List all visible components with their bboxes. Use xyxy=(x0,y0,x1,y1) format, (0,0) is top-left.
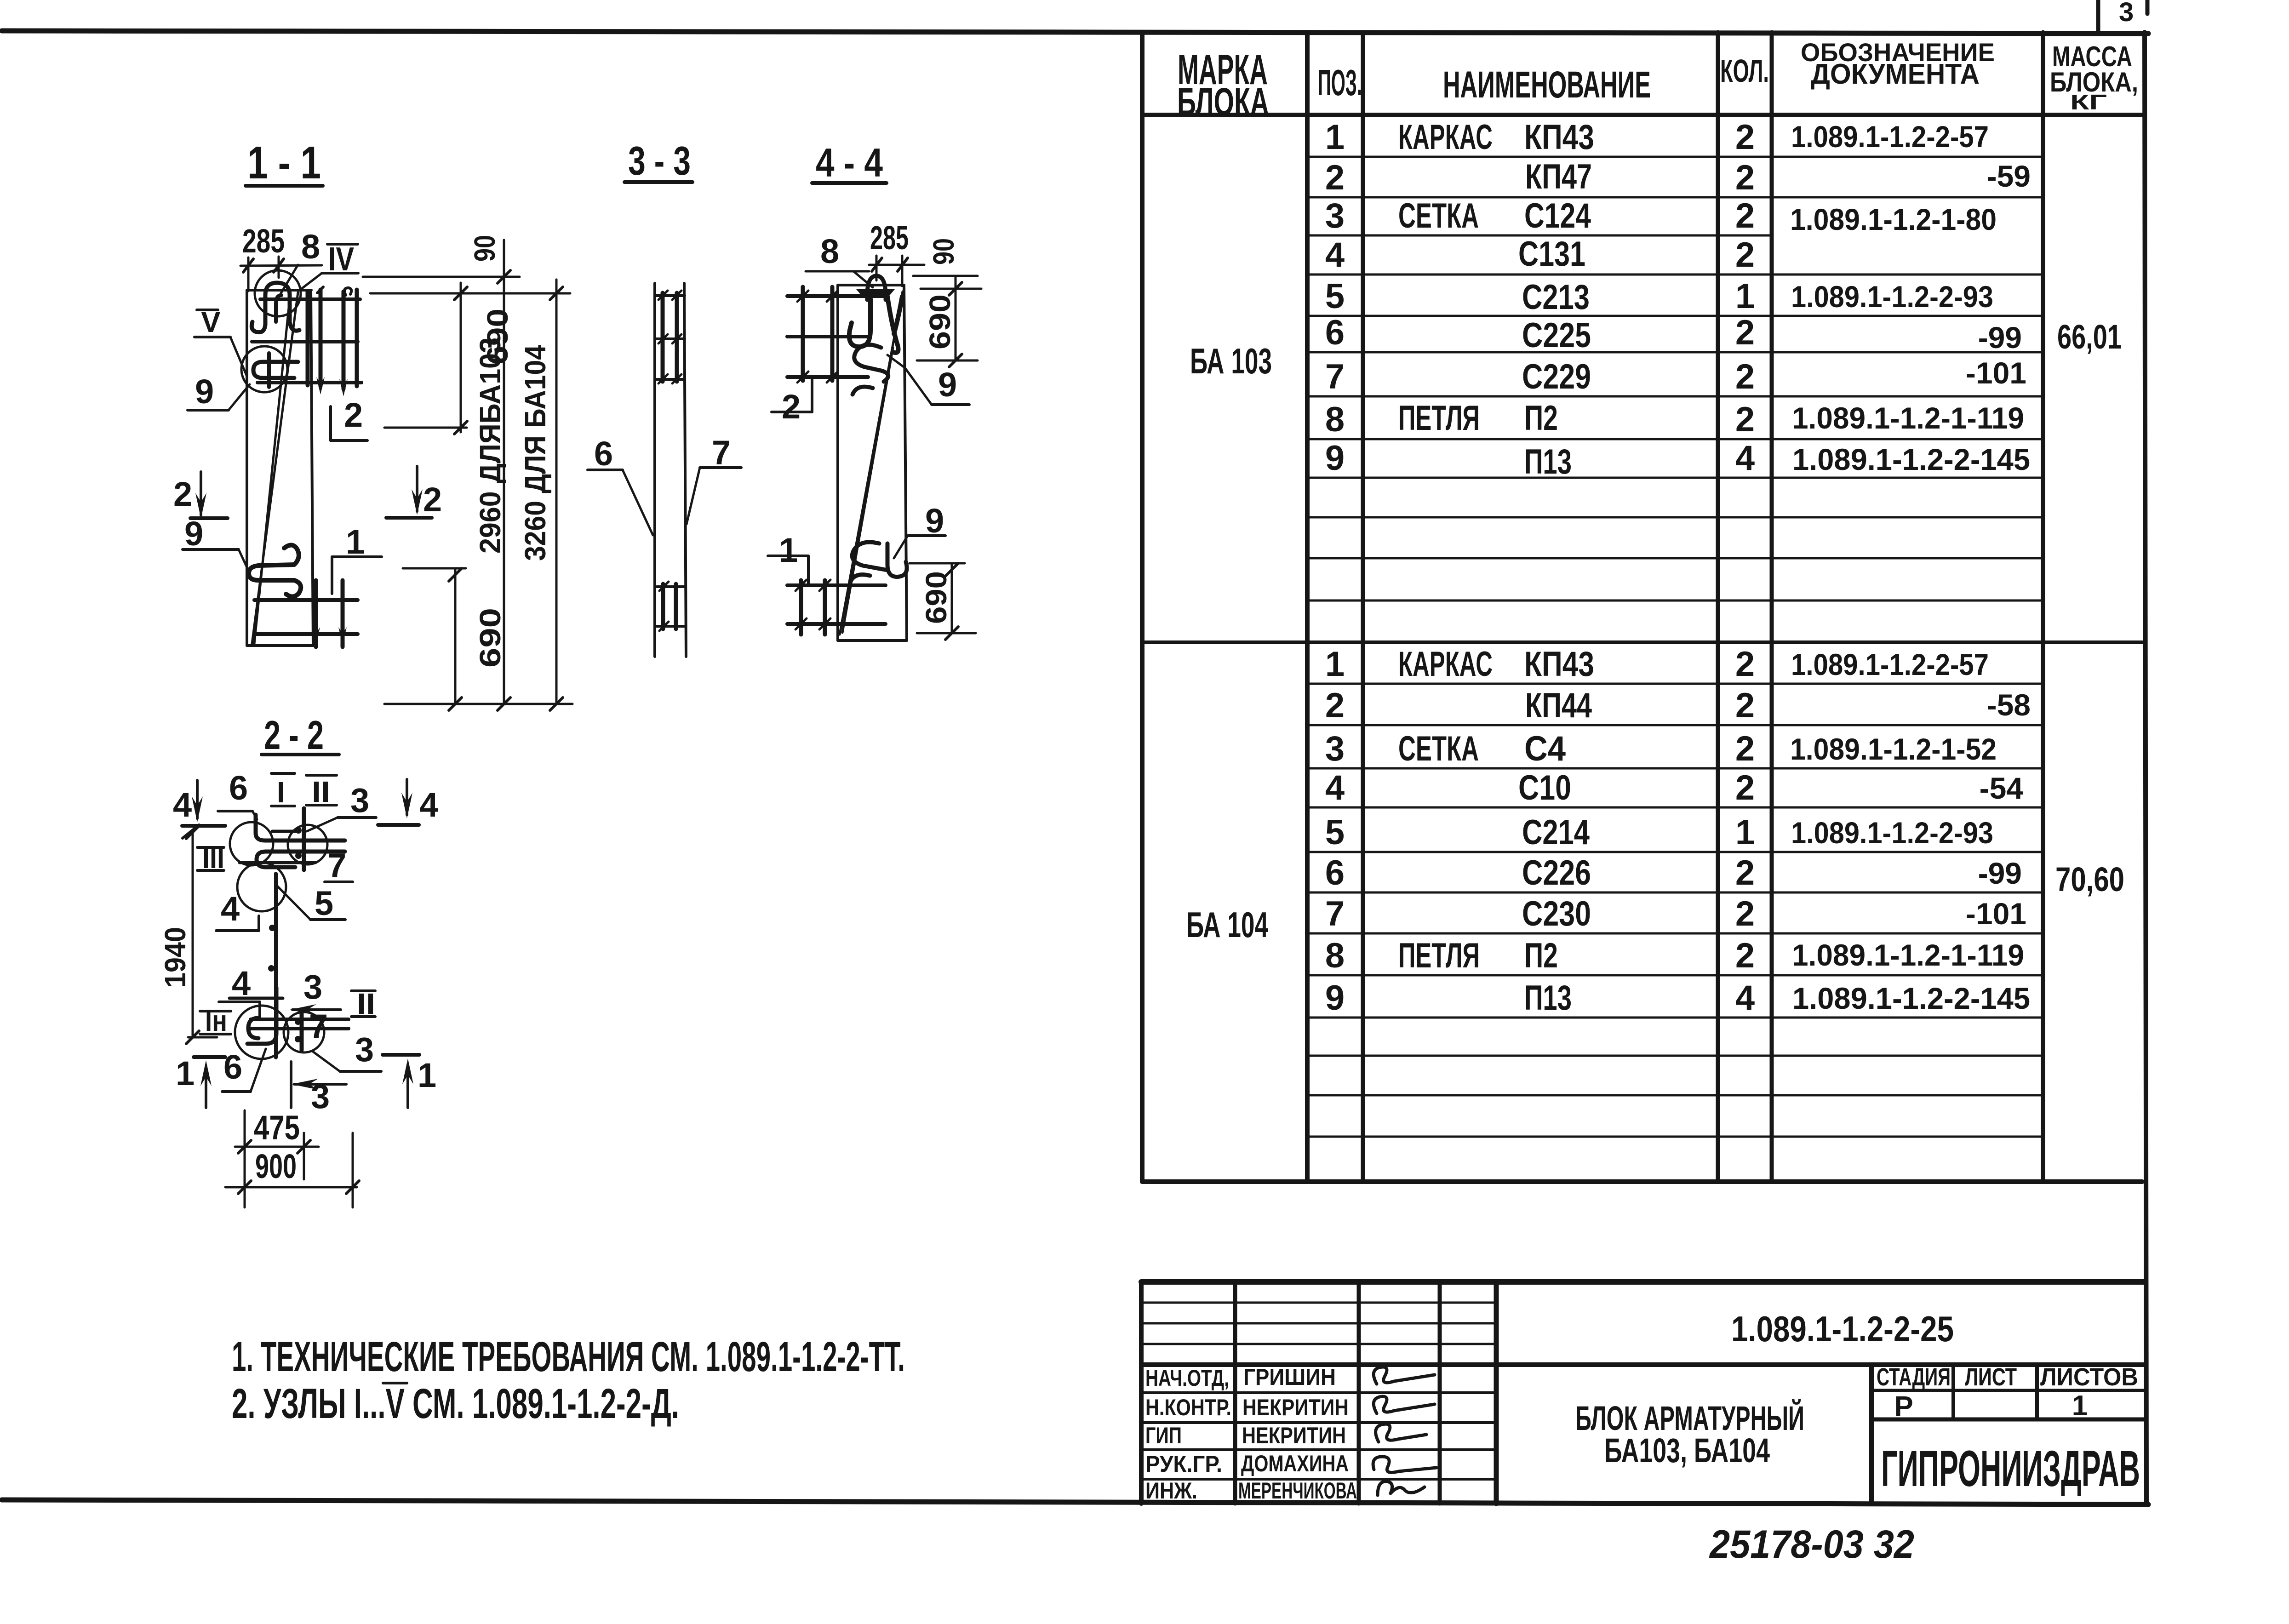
node circle II bottom xyxy=(284,1012,324,1052)
bottom rebar mesh verticals xyxy=(795,580,830,635)
svg-text:66,01: 66,01 xyxy=(2057,318,2122,356)
svg-text:90: 90 xyxy=(468,235,501,262)
signature squiggle 1 xyxy=(1373,1367,1435,1384)
svg-text:4: 4 xyxy=(221,890,240,928)
BA103 row line 3/4 (stops before doc column) xyxy=(1307,234,1772,237)
bottom long bar 1 xyxy=(251,1018,349,1021)
svg-text:РУК.ГР.: РУК.ГР. xyxy=(1145,1451,1222,1477)
svg-text:5: 5 xyxy=(315,884,333,922)
header OBOZNACHENIE DOKUMENTA xyxy=(1801,38,1995,90)
svg-text:БА103, БА104: БА103, БА104 xyxy=(1604,1431,1770,1470)
svg-text:II: II xyxy=(312,775,330,808)
svg-text:СЕТКА: СЕТКА xyxy=(1398,729,1479,768)
svg-text:2: 2 xyxy=(1735,118,1755,157)
bottom long bar 2 xyxy=(251,1027,349,1030)
svg-text:4: 4 xyxy=(1735,439,1755,478)
node label III xyxy=(197,841,224,875)
svg-text:8: 8 xyxy=(301,228,320,266)
svg-text:П2: П2 xyxy=(1524,936,1558,975)
node circle I xyxy=(230,822,273,865)
bottom rebar mesh horizontals xyxy=(787,585,886,624)
svg-text:НЕКРИТИН: НЕКРИТИН xyxy=(1242,1423,1346,1448)
dim 690 top line xyxy=(384,283,467,434)
svg-text:2: 2 xyxy=(1735,686,1755,725)
bottom tie group xyxy=(657,582,685,631)
BA103 row line 4/5 xyxy=(1307,274,2043,276)
column line Oboznachenie/Massa xyxy=(2041,32,2045,1182)
svg-text:475: 475 xyxy=(254,1109,300,1147)
rebar end blob under loop xyxy=(856,289,895,298)
svg-text:1: 1 xyxy=(346,523,365,561)
svg-text:285: 285 xyxy=(242,223,285,260)
svg-text:ЛИСТОВ: ЛИСТОВ xyxy=(2040,1363,2138,1391)
dim 900 xyxy=(225,1133,359,1207)
diagonal brace A xyxy=(840,292,903,635)
svg-text:2: 2 xyxy=(1735,894,1755,933)
node label I xyxy=(271,773,295,809)
label 7 xyxy=(687,434,741,524)
BA104 row 5 xyxy=(1325,813,1993,852)
label 9 lower xyxy=(183,515,247,568)
diagonal brace A xyxy=(252,292,298,644)
svg-text:1.089.1-1.2-1-80: 1.089.1-1.2-1-80 xyxy=(1790,202,1997,236)
U-cap bottom xyxy=(248,1018,258,1038)
svg-text:1.089.1-1.2-2-57: 1.089.1-1.2-2-57 xyxy=(1791,120,1989,154)
svg-text:6: 6 xyxy=(1325,853,1345,892)
svg-text:-101: -101 xyxy=(1966,897,2026,931)
svg-text:3260 ДЛЯ БА104: 3260 ДЛЯ БА104 xyxy=(519,345,552,561)
svg-text:1: 1 xyxy=(1735,277,1755,316)
stadia header bottom xyxy=(1871,1389,2145,1392)
svg-text:КАРКАС: КАРКАС xyxy=(1398,118,1493,157)
section cut marker 1 bottom-right xyxy=(383,1055,436,1108)
section cut marker 3 bottom-center xyxy=(291,1062,346,1115)
lifting loop P2 top xyxy=(252,283,299,332)
names xyxy=(1238,1364,1357,1504)
svg-text:ЛИСТ: ЛИСТ xyxy=(1965,1363,2017,1391)
top hooks xyxy=(849,297,902,395)
label 3 bottom right xyxy=(312,1030,381,1071)
svg-text:90: 90 xyxy=(927,238,960,265)
svg-text:1.089.1-1.2-2-93: 1.089.1-1.2-2-93 xyxy=(1791,280,1993,314)
svg-text:КП47: КП47 xyxy=(1525,157,1592,196)
svg-text:С230: С230 xyxy=(1522,894,1591,933)
SECTION_2_2 xyxy=(159,712,438,1207)
divider signatures/dates xyxy=(1438,1282,1442,1504)
svg-text:6: 6 xyxy=(594,435,613,473)
label 9 top xyxy=(887,355,969,405)
divider labels/names xyxy=(1233,1282,1237,1504)
node circle In xyxy=(235,1006,288,1059)
column line Poz/Naimenovanie xyxy=(1361,32,1365,1182)
BA103 row line 2/3 xyxy=(1307,196,2043,199)
node label II xyxy=(306,775,337,808)
svg-text:2: 2 xyxy=(1735,196,1755,235)
divider stadia/list xyxy=(1951,1365,1955,1419)
svg-text:1: 1 xyxy=(1325,645,1345,684)
bar dots top xyxy=(295,827,302,859)
header MASSA BLOKA KG xyxy=(2050,41,2138,114)
BA104 row 2 xyxy=(1325,686,2031,725)
panel edge left xyxy=(653,283,656,657)
svg-text:70,60: 70,60 xyxy=(2055,860,2124,898)
section cut marker 4 top-left xyxy=(173,780,225,838)
NOTES xyxy=(232,1333,905,1427)
table left border xyxy=(1140,32,1144,1182)
BA104 blank row line xyxy=(1307,1094,2043,1097)
svg-text:1.089.1-1.2-1-119: 1.089.1-1.2-1-119 xyxy=(1792,938,2024,972)
label 9 upper xyxy=(188,372,250,411)
svg-text:КАРКАС: КАРКАС xyxy=(1398,645,1493,684)
column line Marka/Poz xyxy=(1305,32,1310,1182)
svg-text:Н.КОНТР.: Н.КОНТР. xyxy=(1145,1395,1231,1420)
svg-text:9: 9 xyxy=(195,372,214,411)
svg-text:2. УЗЛЫ I...V СМ. 1.089.1-1.2-: 2. УЗЛЫ I...V СМ. 1.089.1-1.2-2-Д. xyxy=(232,1380,679,1427)
svg-text:2960 ДЛЯБА103: 2960 ДЛЯБА103 xyxy=(474,337,507,554)
dim extension second leader xyxy=(921,288,981,290)
svg-text:-58: -58 xyxy=(1987,688,2031,722)
BA104 row 1 xyxy=(1325,645,1989,684)
label 8 xyxy=(806,232,873,287)
right frame border xyxy=(2145,32,2146,1504)
block divider BA103/BA104 xyxy=(1142,640,2142,644)
divider dates/title xyxy=(1494,1282,1499,1504)
svg-text:МЕРЕНЧИКОВА: МЕРЕНЧИКОВА xyxy=(1238,1478,1357,1504)
dim line 2960 dlya BA103 xyxy=(498,240,510,710)
dim extension top leader xyxy=(913,275,978,277)
svg-text:1: 1 xyxy=(2072,1390,2088,1422)
svg-text:С214: С214 xyxy=(1522,813,1590,852)
label 7 xyxy=(325,846,353,885)
svg-text:ДОКУМЕНТА: ДОКУМЕНТА xyxy=(1811,58,1980,90)
svg-text:690: 690 xyxy=(923,294,956,349)
stadia row bottom xyxy=(1871,1418,2145,1422)
svg-text:С124: С124 xyxy=(1524,196,1591,235)
svg-text:7: 7 xyxy=(1325,894,1345,933)
svg-text:5: 5 xyxy=(1325,277,1345,316)
svg-text:2: 2 xyxy=(1735,400,1755,439)
svg-text:2: 2 xyxy=(1735,729,1755,768)
svg-text:С225: С225 xyxy=(1522,316,1591,355)
BA104 row 3 xyxy=(1325,729,1997,768)
svg-text:2: 2 xyxy=(1735,853,1755,892)
node label II bottom xyxy=(351,987,375,1020)
bottom rebar mesh verticals xyxy=(312,580,347,647)
svg-text:ГРИШИН: ГРИШИН xyxy=(1243,1364,1336,1390)
left blank rows xyxy=(1141,1303,1496,1344)
svg-text:СТАДИЯ: СТАДИЯ xyxy=(1877,1363,1951,1391)
diagonal brace B xyxy=(842,348,893,633)
svg-text:9: 9 xyxy=(938,366,957,404)
BA104 blank row line xyxy=(1307,1055,2043,1057)
BA103 row 8 xyxy=(1325,399,2024,439)
BA104 row 7 xyxy=(1325,894,2026,933)
BA103 blank row line xyxy=(1307,557,2043,560)
svg-text:2 - 2: 2 - 2 xyxy=(264,712,324,758)
bottom bar top segment xyxy=(229,997,283,1000)
label 4 mid with bracket xyxy=(216,890,259,931)
BA104 row line 2/3 xyxy=(1307,724,2043,726)
label 1 with bracket xyxy=(768,531,808,585)
signature squiggle 2 xyxy=(1373,1396,1435,1413)
bar dots bottom xyxy=(295,1018,301,1042)
svg-text:2: 2 xyxy=(173,475,192,513)
svg-text:7: 7 xyxy=(1325,357,1345,396)
column line Naimenovanie/Kol xyxy=(1716,32,1720,1182)
BA103 row 7 xyxy=(1325,356,2026,396)
label 2 with bracket xyxy=(772,379,812,426)
title text xyxy=(1575,1399,1804,1470)
BA104 row line 5/6 xyxy=(1307,851,2043,853)
top frame line xyxy=(2,31,2148,34)
dim extension top leader xyxy=(363,276,520,278)
section cut marker 2 left xyxy=(173,472,228,519)
svg-text:4: 4 xyxy=(1325,768,1345,807)
svg-text:ИНЖ.: ИНЖ. xyxy=(1145,1478,1197,1504)
bottom hooks xyxy=(851,542,907,581)
bottom rebar mesh horizontals xyxy=(254,600,358,634)
svg-text:285: 285 xyxy=(870,220,909,257)
BA103 row 6 xyxy=(1325,313,2022,355)
SECTION_4_4 xyxy=(768,140,981,640)
svg-text:СЕТКА: СЕТКА xyxy=(1398,196,1479,235)
svg-text:2: 2 xyxy=(1735,645,1755,684)
BA103 row 4 xyxy=(1325,234,1755,274)
svg-text:4: 4 xyxy=(419,786,438,824)
dim bottom base leader xyxy=(384,703,572,705)
divider list/listov xyxy=(2035,1365,2039,1419)
BA104 row line 8/9 xyxy=(1307,974,2043,977)
stadia values xyxy=(1894,1390,2088,1423)
section cut marker 1 bottom-left xyxy=(176,1054,225,1108)
label 9 bottom xyxy=(894,502,945,558)
svg-text:25178-03 32: 25178-03 32 xyxy=(1709,1522,1914,1567)
left role labels xyxy=(1145,1365,1231,1504)
svg-text:С10: С10 xyxy=(1518,768,1571,807)
BA104 row line 9/10 xyxy=(1307,1017,2043,1019)
label 6 bottom xyxy=(222,1048,266,1092)
svg-text:1.089.1-1.2-2-145: 1.089.1-1.2-2-145 xyxy=(1792,442,2030,476)
column line Kol/Oboznachenie xyxy=(1770,32,1774,1182)
return bar pos5 xyxy=(257,852,345,867)
BA103 row line 5/6 xyxy=(1307,315,2043,317)
svg-text:I: I xyxy=(277,776,285,809)
svg-text:9: 9 xyxy=(184,515,203,553)
svg-text:6: 6 xyxy=(229,769,248,807)
signature squiggle 5 xyxy=(1378,1481,1425,1495)
stadia headers xyxy=(1877,1363,2138,1391)
svg-text:3: 3 xyxy=(2119,0,2134,27)
dim line 3260 dlya BA104 xyxy=(550,280,563,710)
svg-text:1: 1 xyxy=(176,1054,195,1092)
svg-text:7: 7 xyxy=(327,846,346,885)
svg-text:КП43: КП43 xyxy=(1524,645,1594,684)
node circle II xyxy=(288,825,327,864)
svg-text:КГ: КГ xyxy=(2070,90,2107,114)
svg-text:Р: Р xyxy=(1894,1391,1913,1423)
svg-text:3: 3 xyxy=(303,968,322,1006)
dim 690 bottom line xyxy=(403,568,466,710)
svg-text:С131: С131 xyxy=(1518,234,1585,274)
svg-text:1.089.1-1.2-2-57: 1.089.1-1.2-2-57 xyxy=(1791,647,1989,681)
label 5 xyxy=(277,884,345,922)
svg-text:1.089.1-1.2-2-93: 1.089.1-1.2-2-93 xyxy=(1791,816,1993,850)
svg-text:3: 3 xyxy=(350,781,369,819)
svg-text:3: 3 xyxy=(1325,196,1345,235)
label IV xyxy=(300,241,358,290)
diagonal brace B xyxy=(254,294,290,644)
BA104 row line 1/2 xyxy=(1307,683,2043,685)
top rebar mesh horizontals xyxy=(252,299,361,383)
BA104 row 4 xyxy=(1325,768,2023,807)
svg-text:2: 2 xyxy=(1735,936,1755,975)
label 2 with bracket xyxy=(331,396,367,440)
svg-text:ПЕТЛЯ: ПЕТЛЯ xyxy=(1398,399,1480,438)
label 3 mid with arrow xyxy=(290,968,341,1046)
svg-text:6: 6 xyxy=(1325,313,1345,352)
section label 2-2 xyxy=(262,712,339,758)
svg-text:9: 9 xyxy=(1325,978,1345,1018)
label 6 top xyxy=(218,769,257,819)
node circle III xyxy=(237,863,286,911)
svg-text:8: 8 xyxy=(820,232,839,270)
svg-text:4: 4 xyxy=(1735,978,1755,1018)
signature squiggle 4 xyxy=(1373,1457,1436,1472)
TITLE_BLOCK xyxy=(1141,1282,2145,1567)
svg-text:-101: -101 xyxy=(1966,356,2026,390)
top rebar mesh verticals xyxy=(797,287,838,383)
bottom frame line xyxy=(2,1500,2148,1504)
divider names/signatures xyxy=(1357,1282,1361,1504)
bent bar bottom xyxy=(247,988,276,1044)
sheet number tick left xyxy=(2096,0,2100,32)
bottom hook bar with curls xyxy=(249,545,301,596)
svg-text:П13: П13 xyxy=(1524,978,1572,1018)
top rebar mesh horizontals xyxy=(787,296,886,377)
svg-text:КОЛ.: КОЛ. xyxy=(1720,53,1769,89)
BA103 blank row line xyxy=(1307,600,2043,602)
table bottom line xyxy=(1142,1179,2142,1184)
svg-text:ГИП: ГИП xyxy=(1145,1423,1182,1448)
svg-text:1. ТЕХНИЧЕСКИЕ ТРЕБОВАНИЯ СМ.: 1. ТЕХНИЧЕСКИЕ ТРЕБОВАНИЯ СМ. 1.089.1-1.… xyxy=(232,1333,905,1380)
left name rows xyxy=(1141,1393,1496,1479)
svg-text:1.089.1-1.2-2-145: 1.089.1-1.2-2-145 xyxy=(1792,981,2030,1015)
section label 3-3 xyxy=(624,138,692,183)
BA103 row line 7/8 xyxy=(1307,395,2043,398)
svg-text:-54: -54 xyxy=(1980,771,2024,805)
svg-text:2: 2 xyxy=(782,388,801,426)
SECTION_3_3 xyxy=(588,138,741,657)
svg-text:БА 104: БА 104 xyxy=(1186,904,1268,945)
BA103 row line 9/10 xyxy=(1307,477,2043,479)
BA104 row line 4/5 xyxy=(1307,806,2043,809)
svg-text:КП43: КП43 xyxy=(1524,118,1594,157)
SECTION_1_1 xyxy=(173,137,572,710)
BA103 row 1 xyxy=(1325,118,1989,157)
BA103 row 2 xyxy=(1325,157,2031,197)
note line 2 overbar on V xyxy=(383,1382,407,1384)
svg-text:ПОЗ.: ПОЗ. xyxy=(1318,62,1362,103)
BA103 row 5 xyxy=(1325,277,1993,317)
column outline xyxy=(247,290,313,646)
label 6 xyxy=(588,435,653,535)
svg-text:2: 2 xyxy=(344,396,363,434)
svg-text:5: 5 xyxy=(1325,813,1345,852)
top rebar mesh verticals xyxy=(308,287,357,396)
dim line 285 xyxy=(240,257,322,291)
column outline xyxy=(838,285,907,640)
svg-text:2: 2 xyxy=(1735,158,1755,197)
node circle IV xyxy=(255,270,301,316)
label 3 top xyxy=(307,781,376,831)
svg-text:2: 2 xyxy=(1325,686,1345,725)
label 4 lower with bracket xyxy=(219,964,260,1018)
central vertical bar pos3 xyxy=(274,874,278,1058)
header MARKA BLOKA xyxy=(1177,46,1269,123)
svg-text:С213: С213 xyxy=(1522,278,1590,317)
svg-text:С4: С4 xyxy=(1524,729,1566,768)
bar dots middle xyxy=(268,925,275,972)
svg-text:2: 2 xyxy=(423,480,442,519)
node label In xyxy=(200,1004,231,1037)
title block left border xyxy=(1139,1282,1144,1504)
svg-text:2: 2 xyxy=(1735,235,1755,274)
BA103 row line 6/7 xyxy=(1307,351,2043,354)
svg-text:1.089.1-1.2-1-119: 1.089.1-1.2-1-119 xyxy=(1792,401,2024,435)
divider title/stadia xyxy=(1869,1365,1874,1504)
svg-text:1: 1 xyxy=(418,1056,436,1094)
bar segment at node III xyxy=(240,861,315,864)
svg-text:НАИМЕНОВАНИЕ: НАИМЕНОВАНИЕ xyxy=(1443,64,1651,106)
label 8 xyxy=(280,228,320,295)
bent bar pos6 top xyxy=(256,815,345,841)
svg-text:9: 9 xyxy=(925,502,944,540)
vertical bar bottom xyxy=(300,1014,304,1050)
svg-text:П2: П2 xyxy=(1524,399,1558,438)
svg-text:2: 2 xyxy=(1735,357,1755,396)
section label 4-4 xyxy=(812,140,887,185)
svg-text:1: 1 xyxy=(1325,118,1345,157)
svg-text:6: 6 xyxy=(223,1048,242,1086)
svg-text:690: 690 xyxy=(920,571,953,624)
svg-text:ГИПРОНИИЗДРАВ: ГИПРОНИИЗДРАВ xyxy=(1881,1441,2140,1497)
svg-text:П13: П13 xyxy=(1524,442,1572,481)
svg-text:3: 3 xyxy=(1325,729,1345,768)
BA103 row 3 xyxy=(1325,196,1997,236)
bar segment at node I xyxy=(272,830,298,833)
panel edge right xyxy=(684,283,686,657)
full row line doc cell bottom xyxy=(1141,1362,2145,1367)
label V xyxy=(195,305,246,375)
svg-text:2: 2 xyxy=(1735,768,1755,807)
svg-text:Iн: Iн xyxy=(205,1004,227,1037)
BA103 row line 1/2 xyxy=(1307,156,2043,158)
BA104 row 6 xyxy=(1325,853,2022,892)
svg-text:2: 2 xyxy=(1325,158,1345,197)
svg-text:1940: 1940 xyxy=(159,927,192,988)
svg-text:БА 103: БА 103 xyxy=(1190,341,1272,381)
svg-text:1 - 1: 1 - 1 xyxy=(247,137,321,189)
hook P13 mid xyxy=(253,353,298,387)
BA104 row line 6/7 xyxy=(1307,892,2043,894)
svg-text:С229: С229 xyxy=(1522,357,1591,396)
left dim line 1940 xyxy=(186,826,217,1044)
svg-text:1.089.1-1.2-2-25: 1.089.1-1.2-2-25 xyxy=(1731,1309,1954,1349)
BA103 blank row line xyxy=(1307,516,2043,519)
sheet number tick right xyxy=(2146,0,2150,14)
dim 475 xyxy=(235,1110,319,1207)
dim line 285 xyxy=(869,256,924,286)
